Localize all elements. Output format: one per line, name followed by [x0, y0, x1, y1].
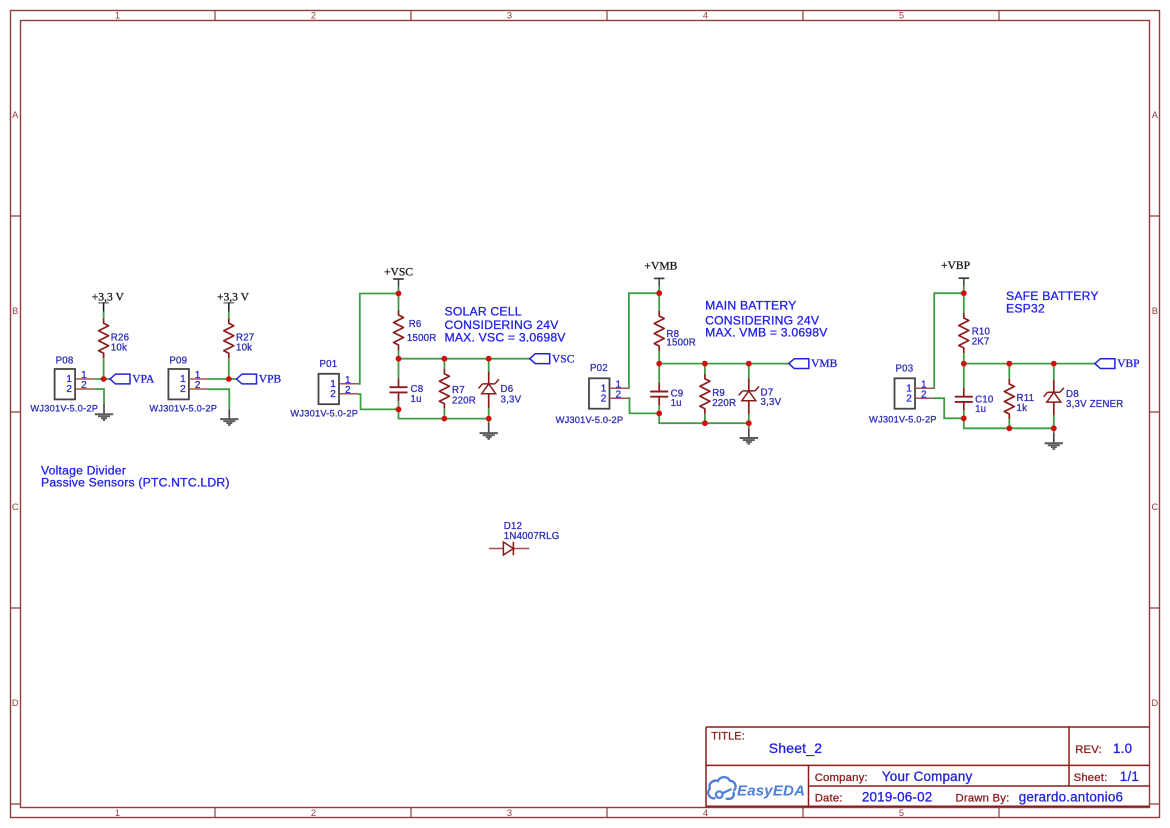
svg-text:2: 2: [195, 380, 201, 391]
svg-text:+3,3 V: +3,3 V: [217, 290, 250, 303]
ground (block 3): [1045, 433, 1063, 449]
diode zener D7: [739, 379, 782, 415]
wire D6 top: [488, 359, 490, 372]
svg-text:3,3V ZENER: 3,3V ZENER: [1066, 399, 1123, 410]
connector P09: [149, 355, 217, 413]
svg-text:P03: P03: [896, 364, 914, 375]
title block: [706, 727, 1150, 808]
wire C10 node to bottom rail: [964, 418, 1054, 428]
node +VSC junction: [396, 291, 402, 297]
svg-text:2019-06-02: 2019-06-02: [862, 790, 933, 805]
svg-text:C: C: [1151, 502, 1158, 512]
svg-text:1u: 1u: [411, 394, 422, 405]
wire C10 bottom: [963, 411, 965, 419]
wire P09 pin1 to node: [208, 378, 229, 380]
svg-text:1N4007RLG: 1N4007RLG: [504, 531, 560, 542]
svg-text:3: 3: [507, 808, 512, 818]
wire P03 pin1 riser: [934, 293, 964, 388]
svg-text:3,3V: 3,3V: [761, 397, 782, 408]
svg-text:MAIN BATTERY: MAIN BATTERY: [705, 299, 796, 313]
wire R7 bottom: [443, 409, 445, 419]
svg-text:WJ301V-5.0-2P: WJ301V-5.0-2P: [149, 403, 217, 413]
node VBP rail left: [961, 361, 967, 367]
svg-text:1500R: 1500R: [666, 337, 696, 348]
capacitor C9: [650, 383, 683, 410]
svg-text:WJ301V-5.0-2P: WJ301V-5.0-2P: [290, 408, 358, 418]
resistor R10: [959, 313, 991, 353]
svg-text:A: A: [12, 110, 19, 120]
wire R10 to VBP rail: [963, 353, 965, 364]
svg-text:P02: P02: [590, 363, 608, 374]
svg-text:B: B: [12, 306, 18, 316]
svg-text:Drawn By:: Drawn By:: [956, 793, 1010, 805]
svg-text:1u: 1u: [975, 404, 986, 415]
svg-text:Your Company: Your Company: [882, 769, 973, 784]
node R11 bottom: [1006, 425, 1012, 431]
svg-text:REV:: REV:: [1075, 744, 1102, 756]
wire R7 top: [443, 359, 445, 369]
node D7 top: [746, 361, 752, 367]
svg-text:1u: 1u: [671, 398, 682, 409]
svg-text:3,3V: 3,3V: [501, 394, 522, 405]
svg-text:220R: 220R: [712, 398, 736, 409]
svg-text:5: 5: [899, 808, 904, 818]
svg-text:Sheet:: Sheet:: [1074, 772, 1108, 784]
power flag +3,3 V (block B): [217, 290, 250, 312]
svg-text:3: 3: [507, 11, 512, 21]
resistor R8: [654, 311, 696, 351]
node VSC rail left: [396, 356, 402, 362]
wire D8 top: [1053, 364, 1055, 380]
ground (block A): [95, 404, 113, 420]
connector P01: [290, 359, 358, 419]
net flag VMB: [789, 358, 838, 370]
wire C9 bottom: [658, 406, 660, 414]
svg-text:2: 2: [345, 385, 351, 396]
svg-text:1k: 1k: [1017, 403, 1028, 414]
svg-text:2: 2: [311, 11, 316, 21]
resistor R26: [99, 318, 130, 358]
wire R9 bottom: [704, 414, 706, 423]
diode zener D6: [479, 372, 522, 409]
wire P01 pin1 riser: [358, 294, 399, 384]
svg-text:VPB: VPB: [259, 374, 282, 386]
node D6 bottom: [486, 416, 492, 422]
svg-text:Date:: Date:: [815, 793, 843, 805]
svg-text:VPA: VPA: [132, 374, 155, 386]
wire node to VPB flag: [229, 378, 237, 380]
node R11 top: [1006, 361, 1012, 367]
wire R9 top: [704, 364, 706, 374]
svg-text:2: 2: [311, 808, 316, 818]
node C9 bottom junction: [656, 411, 662, 417]
ground (block 1): [480, 423, 498, 439]
svg-text:WJ301V-5.0-2P: WJ301V-5.0-2P: [30, 403, 98, 413]
node R7 bottom: [442, 416, 448, 422]
svg-text:P01: P01: [320, 359, 338, 370]
svg-text:2: 2: [616, 389, 622, 400]
wire C9 node to bottom rail: [659, 413, 749, 423]
node R9 top: [702, 361, 708, 367]
net flag VBP: [1095, 358, 1140, 370]
connector P02: [556, 363, 629, 425]
wire C8 node to bottom rail: [399, 409, 489, 418]
note SOLAR CELL: [445, 305, 567, 345]
node D6 top: [486, 356, 492, 362]
wire P09 pin2 to ground: [208, 389, 229, 409]
svg-text:C: C: [12, 502, 19, 512]
svg-text:Sheet_2: Sheet_2: [769, 740, 823, 756]
svg-text:MAX. VSC = 3.0698V: MAX. VSC = 3.0698V: [445, 330, 567, 344]
wire R27 to node VPB: [228, 358, 230, 379]
wire R6 to VSC rail: [398, 350, 400, 359]
svg-text:2: 2: [66, 384, 72, 395]
svg-text:B: B: [1152, 306, 1158, 316]
wire D7 top: [748, 364, 750, 379]
resistor R27: [224, 318, 255, 358]
svg-text:ESP32: ESP32: [1006, 302, 1045, 316]
node +VBP junction: [961, 290, 967, 296]
node C8 bottom junction: [396, 407, 402, 413]
svg-text:EasyEDA: EasyEDA: [737, 782, 805, 799]
svg-text:P09: P09: [169, 355, 187, 366]
svg-text:+VBP: +VBP: [941, 259, 970, 272]
svg-text:+VSC: +VSC: [384, 266, 413, 279]
wire power to R27: [228, 312, 230, 319]
svg-text:WJ301V-5.0-2P: WJ301V-5.0-2P: [556, 415, 624, 425]
ground (block 2): [740, 428, 758, 444]
wire P02 pin2 to C9 node: [629, 398, 660, 413]
node D7 bottom: [746, 420, 752, 426]
svg-text:4: 4: [703, 11, 708, 21]
wire +VSC to R6: [398, 294, 400, 311]
svg-text:2: 2: [81, 380, 87, 391]
node +VMB junction: [656, 290, 662, 296]
svg-text:MAX. VMB = 3.0698V: MAX. VMB = 3.0698V: [705, 325, 828, 339]
svg-text:VMB: VMB: [811, 358, 838, 370]
svg-text:+3,3 V: +3,3 V: [92, 290, 125, 303]
power flag +3,3 V (block A): [92, 290, 125, 312]
wire C10 top: [963, 364, 965, 388]
svg-text:A: A: [1152, 110, 1159, 120]
svg-text:1: 1: [115, 11, 120, 21]
svg-text:D: D: [1151, 698, 1158, 708]
svg-text:1/1: 1/1: [1120, 769, 1139, 784]
svg-text:R7: R7: [452, 385, 465, 396]
node C10 bottom junction: [961, 415, 967, 421]
wire VMB rail: [659, 363, 789, 365]
wire R8 to VMB rail: [658, 351, 660, 364]
svg-text:Company:: Company:: [815, 772, 868, 784]
svg-text:1: 1: [115, 808, 120, 818]
wire C9 top: [658, 364, 660, 383]
svg-text:2: 2: [330, 389, 336, 400]
power flag +VBP: [941, 259, 970, 293]
note Voltage Divider: [41, 464, 230, 490]
svg-text:gerardo.antonio6: gerardo.antonio6: [1019, 790, 1123, 805]
wire C8 bottom: [398, 402, 400, 410]
connector P03: [869, 364, 937, 425]
wire R11 top: [1008, 364, 1010, 379]
svg-text:5: 5: [899, 11, 904, 21]
node R9 bottom: [702, 420, 708, 426]
node R7 top: [442, 356, 448, 362]
svg-text:TITLE:: TITLE:: [711, 731, 745, 743]
svg-text:D: D: [12, 698, 19, 708]
wire C8 top: [398, 359, 400, 379]
wire power to R26: [103, 312, 105, 319]
svg-text:1.0: 1.0: [1113, 741, 1132, 756]
svg-text:WJ301V-5.0-2P: WJ301V-5.0-2P: [869, 415, 937, 425]
node D8 bottom: [1051, 425, 1057, 431]
svg-text:2: 2: [180, 384, 186, 395]
svg-text:VBP: VBP: [1117, 358, 1139, 370]
wire D7 bottom: [748, 414, 750, 428]
wire P08 pin1 to node: [94, 378, 104, 380]
capacitor C8: [390, 378, 424, 405]
svg-text:10k: 10k: [236, 342, 252, 353]
svg-text:220R: 220R: [452, 395, 476, 406]
wire R26 to node VPA: [103, 358, 105, 379]
svg-text:R6: R6: [409, 319, 422, 330]
wire R11 bottom: [1008, 419, 1010, 428]
wire D8 bottom: [1053, 415, 1055, 433]
net flag VSC: [530, 353, 575, 365]
ground (block B): [220, 409, 238, 425]
power flag +VSC: [384, 266, 413, 294]
resistor R6: [394, 310, 437, 350]
note MAIN BATTERY: [705, 299, 828, 340]
svg-text:VSC: VSC: [552, 353, 575, 365]
diode D12: [489, 521, 560, 555]
svg-text:2K7: 2K7: [972, 337, 990, 348]
svg-text:2: 2: [921, 389, 927, 400]
svg-text:P08: P08: [56, 355, 74, 366]
svg-text:+VMB: +VMB: [644, 259, 677, 272]
node VMB rail left: [656, 361, 662, 367]
node VPA junction: [101, 376, 107, 382]
wire VSC rail: [399, 358, 530, 360]
node D8 top: [1051, 361, 1057, 367]
svg-text:2: 2: [601, 393, 607, 404]
note SAFE BATTERY: [1006, 289, 1099, 316]
svg-text:1500R: 1500R: [407, 333, 437, 344]
svg-text:SOLAR CELL: SOLAR CELL: [445, 305, 522, 319]
resistor R7: [439, 369, 476, 409]
node VPB junction: [226, 376, 232, 382]
wire node to VPA flag: [104, 378, 110, 380]
wire VBP rail: [964, 363, 1095, 365]
resistor R9: [700, 374, 736, 414]
capacitor C10: [955, 388, 994, 415]
diode zener D8: [1044, 380, 1124, 416]
wire P01 pin2 to C8 node: [358, 394, 399, 409]
wire P02 pin1 riser: [629, 293, 660, 388]
power flag +VMB: [644, 259, 677, 293]
svg-text:4: 4: [703, 808, 708, 818]
svg-text:Passive Sensors (PTC.NTC.LDR): Passive Sensors (PTC.NTC.LDR): [41, 476, 230, 490]
connector P08: [30, 355, 98, 413]
net flag VPA: [110, 374, 155, 386]
wire +VMB to R8: [658, 293, 660, 311]
svg-text:2: 2: [906, 393, 912, 404]
wire P08 pin2 to ground: [94, 389, 104, 404]
resistor R11: [1004, 379, 1034, 419]
EasyEDA logo: [708, 777, 805, 799]
wire +VBP to R10: [963, 293, 965, 313]
svg-text:10k: 10k: [111, 342, 127, 353]
net flag VPB: [237, 374, 282, 386]
wire D6 bottom: [488, 408, 490, 423]
wire P03 pin2 to C10 node: [934, 398, 964, 418]
